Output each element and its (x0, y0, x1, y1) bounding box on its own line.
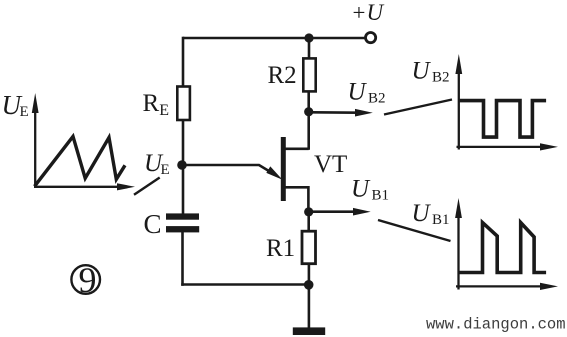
UB1 pulse waveform (459, 223, 546, 273)
resistor R2 body (303, 58, 315, 91)
svg-text:C: C (144, 209, 162, 239)
svg-text:R1: R1 (266, 235, 295, 262)
ground (293, 327, 325, 335)
wire RE to cap (182, 120, 185, 214)
wire left branch upper (182, 37, 185, 87)
node bottom junction (304, 280, 314, 290)
wire bottom horizontal (181, 283, 309, 286)
UB1 graph vertical axis (455, 198, 462, 290)
svg-text:VT: VT (314, 151, 347, 178)
UB2 graph horizontal axis (457, 143, 559, 150)
resistor R1 body (302, 231, 316, 264)
arrow UB1 (312, 208, 371, 216)
wire R2 top stub (308, 38, 311, 59)
svg-text:9: 9 (79, 260, 97, 300)
svg-text:E: E (161, 162, 170, 178)
node B2 (304, 107, 313, 116)
VT emitter arrowhead (266, 166, 282, 179)
leader to UB2 waveform (384, 100, 452, 115)
resistor RE body (177, 87, 190, 121)
svg-text:E: E (20, 104, 29, 120)
svg-text:U: U (412, 58, 432, 85)
wire B1 node to R1 (307, 212, 310, 232)
svg-text:B2: B2 (368, 91, 386, 107)
UE graph horizontal axis (34, 183, 135, 190)
UB2 square waveform (459, 101, 546, 138)
VT emitter wire (182, 165, 273, 174)
VT B1 lead (285, 187, 308, 212)
leader to UB1 waveform (378, 220, 451, 241)
node B1 (304, 207, 313, 216)
leader from UE graph to node (134, 178, 160, 195)
wire cap to bottom (181, 232, 184, 286)
VT B2 lead (285, 148, 309, 151)
svg-text:U: U (348, 79, 368, 106)
svg-text:+U: +U (351, 0, 385, 25)
node top rail junction (304, 33, 313, 42)
capacitor C plate bottom (166, 226, 199, 232)
svg-text:B1: B1 (372, 188, 390, 204)
svg-text:R2: R2 (268, 62, 297, 89)
wire R1 to ground (308, 264, 311, 329)
svg-text:B1: B1 (432, 212, 450, 228)
svg-text:U: U (351, 176, 371, 203)
UE graph vertical axis (32, 93, 39, 188)
svg-text:U: U (412, 200, 432, 227)
node UE (177, 160, 187, 170)
UB2 graph vertical axis (455, 54, 462, 150)
svg-text:B2: B2 (432, 70, 450, 86)
VT base bar (281, 137, 286, 201)
UB1 graph horizontal axis (456, 283, 558, 290)
terminal +U (366, 33, 376, 43)
svg-text:www.diangon.com: www.diangon.com (426, 316, 566, 334)
UE sawtooth waveform (35, 136, 126, 186)
arrow UB2 (312, 109, 373, 117)
circled 9 (71, 260, 100, 300)
transistor VT (182, 137, 309, 212)
wire R2 bottom to B2 lead (307, 91, 310, 149)
capacitor C plate top (166, 213, 199, 219)
wire top rail (183, 37, 365, 40)
